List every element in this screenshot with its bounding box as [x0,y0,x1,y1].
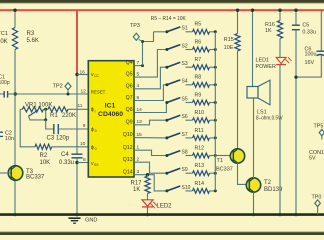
svg-text:Q14: Q14 [123,169,133,175]
svg-text:TP3: TP3 [130,23,140,29]
svg-text:S2: S2 [182,43,188,49]
svg-text:R17: R17 [131,180,143,186]
svg-text:0.33u: 0.33u [59,160,74,166]
svg-text:R1: R1 [50,113,58,119]
svg-text:Q13: Q13 [123,157,133,163]
svg-text:ϕ: ϕ [91,107,94,113]
svg-text:R5 – R14 = 10K: R5 – R14 = 10K [151,16,187,22]
svg-text:R15: R15 [224,37,234,43]
svg-text:GND: GND [85,217,97,223]
svg-text:Q9: Q9 [126,119,133,125]
svg-text:BC337: BC337 [26,174,45,180]
svg-text:R2: R2 [40,153,48,159]
svg-text:16V: 16V [305,60,315,66]
svg-text:C4: C4 [61,152,69,158]
svg-text:VR1 100K: VR1 100K [25,102,52,108]
svg-text:S9: S9 [182,167,188,173]
svg-text:CC: CC [94,74,99,78]
svg-text:Q12: Q12 [123,145,133,151]
svg-text:C3 120p: C3 120p [47,135,70,141]
svg-text:S8: S8 [182,149,188,155]
svg-text:RESET: RESET [91,90,106,95]
svg-text:R11: R11 [195,128,204,134]
svg-text:S7: S7 [182,132,188,138]
svg-text:R5: R5 [195,22,202,28]
svg-text:T2: T2 [264,180,272,186]
svg-text:11: 11 [78,103,83,109]
svg-text:R13: R13 [195,163,205,169]
svg-text:10K: 10K [0,39,8,45]
svg-text:ϕ: ϕ [91,127,94,133]
svg-text:CD4060: CD4060 [98,111,123,118]
svg-text:0: 0 [95,129,97,133]
svg-text:5V: 5V [309,156,316,162]
svg-text:8: 8 [83,157,86,163]
svg-text:1K: 1K [133,187,140,193]
svg-text:LED1: LED1 [256,58,270,64]
svg-text:5.6K: 5.6K [27,38,39,44]
svg-text:S3: S3 [182,61,188,67]
svg-text:S5: S5 [182,96,188,102]
svg-text:R8: R8 [195,75,202,81]
svg-text:16: 16 [80,69,86,75]
svg-text:0.33u: 0.33u [302,29,316,35]
svg-text:8–ohm,0.5W: 8–ohm,0.5W [256,115,283,121]
svg-text:100u: 100u [305,52,317,58]
svg-text:Q7: Q7 [126,95,133,101]
svg-text:S6: S6 [182,114,188,120]
svg-text:10E: 10E [224,45,234,51]
svg-text:1K: 1K [265,28,272,34]
svg-text:Q6: Q6 [126,83,133,89]
svg-text:POWER: POWER [256,64,276,70]
svg-text:Q4: Q4 [126,60,133,66]
svg-text:12: 12 [81,89,87,95]
svg-text:C5: C5 [302,23,309,29]
svg-text:TP0: TP0 [312,194,322,200]
svg-text:TP5: TP5 [314,123,324,129]
svg-text:Q10: Q10 [123,132,133,138]
svg-text:Q8: Q8 [126,107,133,113]
svg-text:Q5: Q5 [126,72,133,78]
svg-text:R9: R9 [195,92,202,98]
svg-text:R3: R3 [27,31,35,37]
svg-text:100p: 100p [0,80,10,86]
svg-text:R14: R14 [195,181,205,187]
svg-text:IC1: IC1 [105,103,116,110]
svg-text:9: 9 [83,123,86,129]
svg-text:S10: S10 [182,185,191,191]
svg-text:R10: R10 [195,110,205,116]
svg-text:TP2: TP2 [53,84,63,90]
svg-text:R12: R12 [195,145,205,151]
svg-text:10: 10 [80,141,86,147]
svg-text:220K: 220K [62,113,76,119]
svg-text:R7: R7 [195,57,202,63]
svg-text:BC337: BC337 [216,166,233,172]
svg-text:S4: S4 [182,79,188,85]
svg-text:LED2: LED2 [157,204,173,210]
svg-text:10n: 10n [5,136,14,142]
svg-text:TC1: TC1 [0,31,8,37]
svg-text:SS: SS [94,163,98,167]
svg-text:T1: T1 [217,158,223,164]
svg-text:10K: 10K [40,160,51,166]
svg-text:R6: R6 [195,39,202,45]
svg-text:0: 0 [95,147,97,151]
svg-text:ϕ: ϕ [91,145,94,151]
svg-text:S1: S1 [182,26,188,32]
